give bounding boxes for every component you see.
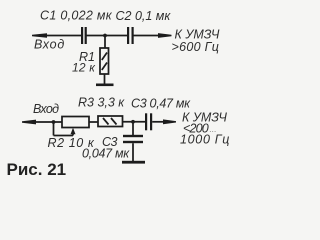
svg-text:С1 0,022 мк: С1 0,022 мк	[40, 8, 113, 22]
svg-text:R3 3,3 к: R3 3,3 к	[78, 96, 125, 110]
svg-text:1000 Гц: 1000 Гц	[180, 132, 230, 146]
svg-text:С2 0,1 мк: С2 0,1 мк	[116, 9, 172, 23]
svg-text:>600 Гц: >600 Гц	[172, 40, 220, 54]
svg-text:12 к: 12 к	[72, 61, 96, 75]
svg-text:Рис. 21: Рис. 21	[7, 160, 67, 179]
svg-text:0,047 мк: 0,047 мк	[82, 147, 130, 161]
svg-text:С3 0,47 мк: С3 0,47 мк	[131, 96, 191, 110]
svg-text:Вход: Вход	[33, 102, 59, 116]
svg-text:Вход: Вход	[34, 38, 65, 52]
